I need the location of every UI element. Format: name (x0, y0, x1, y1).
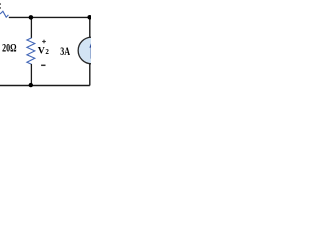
svg-text:20Ω: 20Ω (2, 43, 16, 55)
svg-text:V: V (38, 46, 45, 57)
svg-text:3A: 3A (60, 45, 70, 58)
svg-text:2: 2 (45, 48, 49, 56)
